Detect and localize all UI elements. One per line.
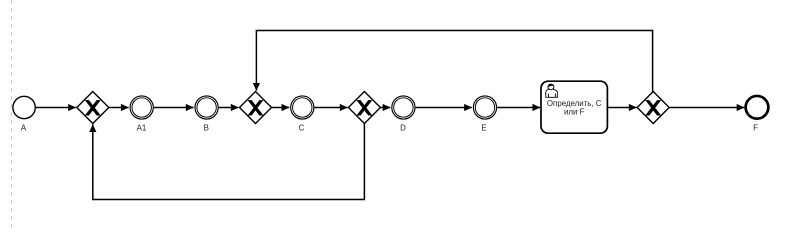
wire E to task <box>497 107 540 109</box>
page boundary dashed line <box>11 0 13 232</box>
wire D to E <box>416 107 472 109</box>
wire G3 to D <box>381 107 391 109</box>
gateway G4 (exclusive) <box>637 92 669 124</box>
wire loop G4 top to G2 top <box>256 31 652 93</box>
intermediate event E <box>473 96 496 133</box>
wire A1 to B <box>154 107 194 109</box>
end event F <box>746 96 769 133</box>
wire task to G4 <box>607 107 636 109</box>
intermediate event C <box>291 96 314 133</box>
svg-text:F: F <box>753 124 758 133</box>
svg-text:C: C <box>299 124 305 133</box>
intermediate event A1 <box>130 96 153 133</box>
wire G4 to F <box>669 107 744 109</box>
user task "Определить, С или F" <box>541 81 607 133</box>
intermediate event B <box>195 96 218 133</box>
start event A <box>13 96 35 118</box>
intermediate event D <box>392 96 415 133</box>
svg-text:E: E <box>481 124 486 133</box>
wire G2 to C <box>272 107 290 109</box>
wire C to G3 <box>315 107 348 109</box>
wire G1 to A1 <box>109 107 129 109</box>
svg-text:D: D <box>400 124 406 133</box>
svg-text:B: B <box>204 124 209 133</box>
wire B to G2 <box>219 107 239 109</box>
svg-text:или F: или F <box>564 107 585 116</box>
wire A to gateway G1 <box>35 107 75 109</box>
svg-text:A: A <box>21 124 27 133</box>
svg-text:A1: A1 <box>137 124 147 133</box>
user task icon <box>546 84 558 97</box>
gateway G3 (exclusive) <box>348 92 380 124</box>
gateway G2 (exclusive) <box>240 92 272 124</box>
gateway G1 (exclusive) <box>77 92 109 124</box>
wire loop G3 bottom to G1 bottom <box>93 124 365 200</box>
